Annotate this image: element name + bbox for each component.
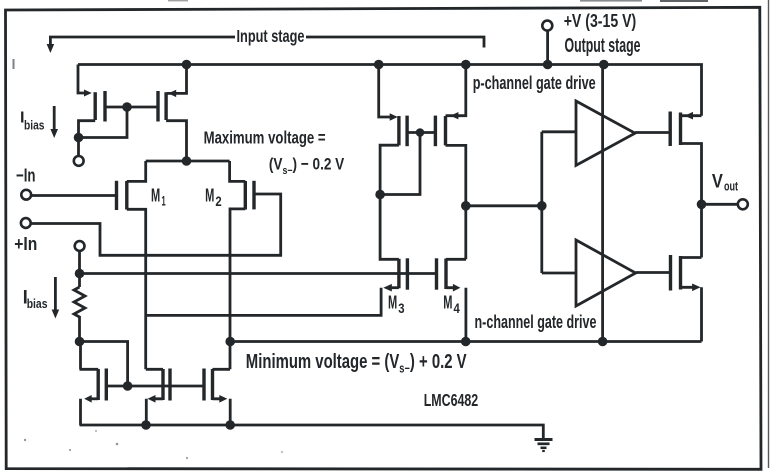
svg-text:LMC6482: LMC6482 [424, 390, 479, 410]
svg-text:Minimum voltage = (Vs−) + 0.2: Minimum voltage = (Vs−) + 0.2 V [246, 350, 467, 376]
svg-text:p-channel gate drive: p-channel gate drive [473, 73, 596, 93]
svg-text:out: out [724, 180, 739, 194]
svg-text:M: M [443, 292, 452, 313]
svg-text:M: M [205, 184, 214, 205]
svg-text:n-channel gate drive: n-channel gate drive [475, 312, 597, 332]
svg-text:M: M [151, 184, 160, 205]
svg-text:Maximum voltage =: Maximum voltage = [204, 128, 326, 148]
svg-text:4: 4 [454, 300, 460, 316]
svg-text:+V (3-15 V): +V (3-15 V) [564, 10, 637, 31]
svg-text:(Vs−) − 0.2 V: (Vs−) − 0.2 V [269, 155, 345, 177]
svg-text:2: 2 [215, 193, 221, 209]
svg-text:bias: bias [24, 119, 45, 133]
svg-text:1: 1 [162, 192, 166, 208]
svg-text:Input stage: Input stage [237, 26, 305, 46]
svg-text:M: M [388, 292, 397, 313]
svg-text:Output stage: Output stage [565, 35, 641, 57]
svg-text:3: 3 [398, 300, 404, 316]
svg-text:+In: +In [14, 233, 37, 254]
svg-text:bias: bias [27, 296, 48, 311]
svg-text:V: V [712, 172, 723, 193]
svg-text:−In: −In [16, 165, 36, 186]
